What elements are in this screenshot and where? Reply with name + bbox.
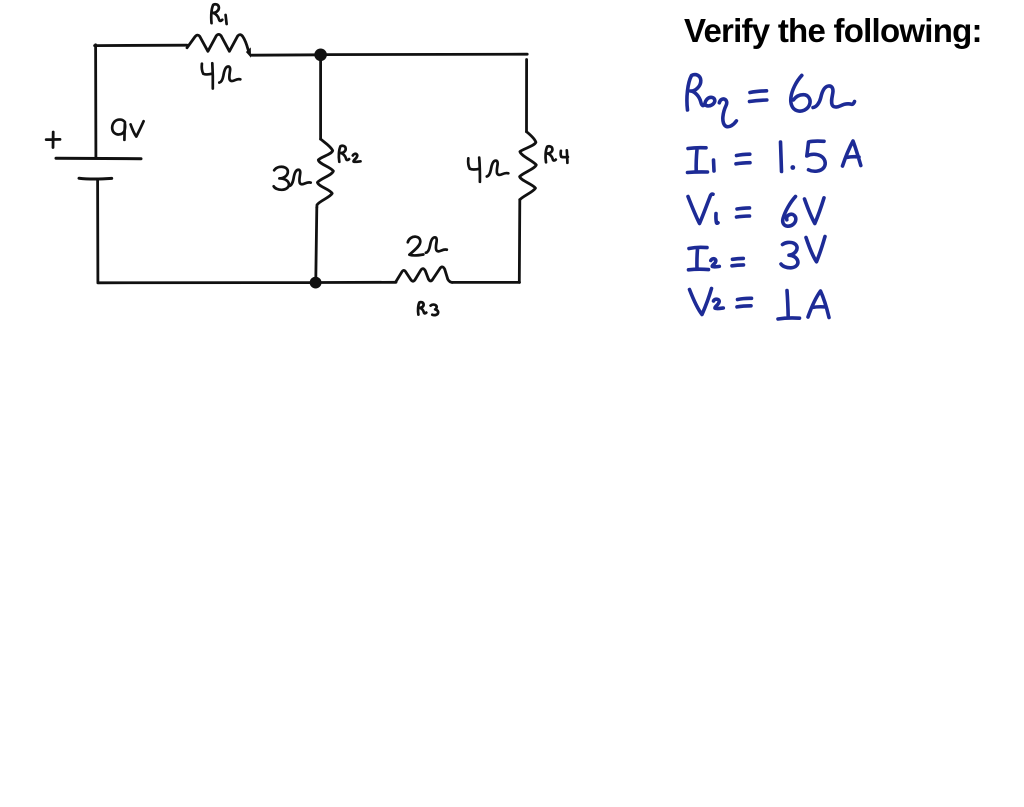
label R2: handwritten R bbox=[339, 146, 349, 162]
answer line 2: decimal point bbox=[790, 165, 795, 170]
answer line 4: letter I with serifs bbox=[689, 247, 709, 269]
battery B1 negative plate (short line) bbox=[79, 177, 112, 181]
answer line 5: equals sign bbox=[737, 298, 752, 307]
answer line 2: digit 1 bbox=[781, 142, 782, 172]
answer line 2: digit 5 bbox=[807, 141, 825, 171]
answer line 1: big cursive omega bbox=[813, 86, 855, 108]
answer line 2: letter A bbox=[843, 141, 861, 166]
answer line 4: equals sign bbox=[732, 258, 744, 265]
wire: R1 to top junction node bbox=[251, 53, 320, 56]
answer line 2: equals sign bbox=[736, 154, 750, 164]
answer line 4: letter V bbox=[806, 237, 825, 262]
node: bottom junction dot bbox=[310, 277, 322, 289]
value label 4 ohm for R1: omega bbox=[219, 67, 240, 83]
value label 4 ohm for R4: digit 4 bbox=[468, 158, 480, 182]
answer line 1: digit 6 bbox=[791, 75, 810, 111]
node: top junction dot bbox=[314, 49, 327, 62]
wire: middle branch upper segment bbox=[319, 55, 322, 139]
label R4: subscript 4 bbox=[561, 150, 568, 163]
resistor R3 (zigzag, 2 ohm, bottom branch) bbox=[396, 267, 453, 283]
answer line 3: letter V bbox=[688, 194, 713, 223]
label R1: handwritten R bbox=[211, 4, 222, 23]
answer line 4: digit 3 bbox=[781, 242, 798, 267]
value label 3 ohm for R2: digit 3 bbox=[274, 167, 289, 190]
wire: top-left horizontal from battery to R1 bbox=[95, 44, 187, 47]
battery plus sign bbox=[46, 132, 60, 148]
label R4: handwritten R bbox=[546, 146, 556, 162]
answer line 3: subscript 1 bbox=[716, 214, 718, 224]
label R1: subscript 1 bbox=[226, 15, 227, 24]
answer line 5: letter V bbox=[690, 289, 712, 315]
value label 4 ohm for R4: omega bbox=[487, 161, 509, 177]
answer line 1: equals sign bbox=[750, 91, 767, 102]
answer line 2: letter I with serifs bbox=[688, 148, 708, 173]
label R2: subscript 2 bbox=[353, 154, 361, 162]
wire: bottom-left horizontal to bottom junction bbox=[98, 281, 311, 284]
wire: right branch lower segment down to bottom wire bbox=[518, 200, 521, 283]
answer line 2: subscript 1 bbox=[712, 160, 716, 171]
resistor R2 (zigzag, 3 ohm, middle branch) bbox=[317, 139, 334, 207]
label R3: subscript 3 bbox=[431, 305, 439, 316]
answer line 3: letter V bbox=[805, 198, 825, 224]
answer line 1: Req cursive R bbox=[687, 75, 705, 110]
value label 3 ohm for R2: omega bbox=[289, 170, 310, 186]
value label 9V for battery: digit 9 bbox=[112, 120, 125, 140]
wire: middle branch lower segment bbox=[316, 208, 317, 280]
value label 9V for battery: letter V bbox=[131, 121, 144, 136]
wire: R3 to bottom-right corner bbox=[452, 281, 520, 284]
label R3: handwritten R bbox=[418, 302, 426, 314]
answer line 5: digit 1 with base serif bbox=[778, 291, 800, 320]
value label 2 ohm for R3: omega bbox=[426, 237, 447, 252]
wire: left vertical from top wire down to battery + plate bbox=[94, 45, 97, 158]
answer line 1: cursive e bbox=[705, 97, 715, 106]
answer line 3: digit 6 with spiral bowl bbox=[783, 197, 796, 227]
answer line 5: letter A bbox=[808, 291, 829, 318]
resistor R1 (zigzag, 4 ohm, top branch) bbox=[187, 34, 251, 57]
resistor R4 (zigzag, 4 ohm, right branch) bbox=[520, 132, 537, 200]
answer line 1: subscript q with descender bbox=[719, 99, 736, 127]
wire: battery negative down to bottom-left corner bbox=[96, 180, 99, 283]
answer line 4: subscript 2 bbox=[711, 259, 720, 267]
answer line 5: subscript 2 bbox=[714, 299, 724, 308]
wire: top junction to top-right corner bbox=[320, 53, 527, 56]
battery B1 positive plate (long line) bbox=[56, 157, 141, 160]
wire: right branch upper segment from top wire bbox=[525, 60, 528, 132]
value label 4 ohm for R1: digit 4 bbox=[202, 63, 213, 88]
answer line 3: equals sign bbox=[737, 208, 750, 217]
wire: bottom junction to R3 bbox=[321, 281, 396, 284]
value label 2 ohm for R3: digit 2 bbox=[408, 237, 424, 256]
